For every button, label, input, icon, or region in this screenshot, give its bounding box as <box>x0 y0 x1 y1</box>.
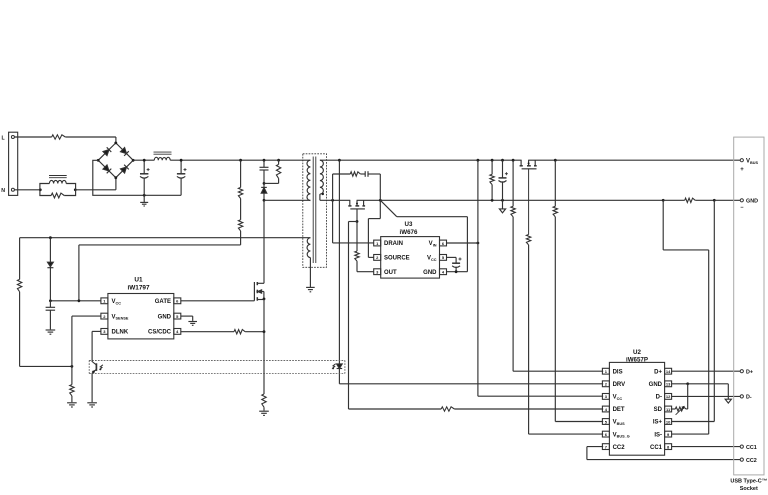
svg-text:13: 13 <box>666 382 671 387</box>
svg-text:GND: GND <box>649 382 663 388</box>
svg-text:CC1: CC1 <box>650 445 663 451</box>
svg-text:GND: GND <box>158 314 172 320</box>
svg-text:D-: D- <box>746 395 752 401</box>
svg-text:10: 10 <box>666 419 671 424</box>
svg-text:DLNK: DLNK <box>112 330 129 336</box>
svg-text:U3: U3 <box>405 221 413 228</box>
svg-text:14: 14 <box>666 369 671 374</box>
svg-text:+: + <box>740 167 744 173</box>
svg-text:GND: GND <box>423 270 437 276</box>
svg-text:U1: U1 <box>134 277 143 284</box>
svg-text:N: N <box>1 188 5 194</box>
svg-text:D+: D+ <box>746 369 753 375</box>
svg-text:−: − <box>740 205 743 211</box>
svg-text:DET: DET <box>613 407 625 413</box>
svg-text:iW676: iW676 <box>400 229 418 236</box>
svg-text:DIS: DIS <box>613 369 623 375</box>
svg-text:GND: GND <box>746 199 758 205</box>
svg-text:DRV: DRV <box>613 382 626 388</box>
svg-text:GATE: GATE <box>155 299 171 305</box>
svg-text:IS+: IS+ <box>653 420 663 426</box>
svg-text:iW1797: iW1797 <box>127 285 149 292</box>
svg-text:OUT: OUT <box>384 270 397 276</box>
svg-text:SOURCE: SOURCE <box>384 256 410 262</box>
svg-text:USB Type-C™: USB Type-C™ <box>730 479 767 485</box>
svg-text:CC2: CC2 <box>613 445 626 451</box>
svg-text:iW657P: iW657P <box>626 357 648 364</box>
svg-text:12: 12 <box>666 394 671 399</box>
svg-text:CC1: CC1 <box>746 445 757 451</box>
svg-text:Socket: Socket <box>740 486 758 492</box>
svg-text:D-: D- <box>656 395 662 401</box>
svg-text:CS/CDC: CS/CDC <box>148 330 172 336</box>
svg-text:U2: U2 <box>633 349 641 356</box>
svg-text:IS-: IS- <box>654 432 662 438</box>
svg-text:DRAIN: DRAIN <box>384 241 403 247</box>
svg-text:D+: D+ <box>654 369 662 375</box>
svg-text:CC2: CC2 <box>746 458 757 464</box>
svg-text:SD: SD <box>654 407 663 413</box>
